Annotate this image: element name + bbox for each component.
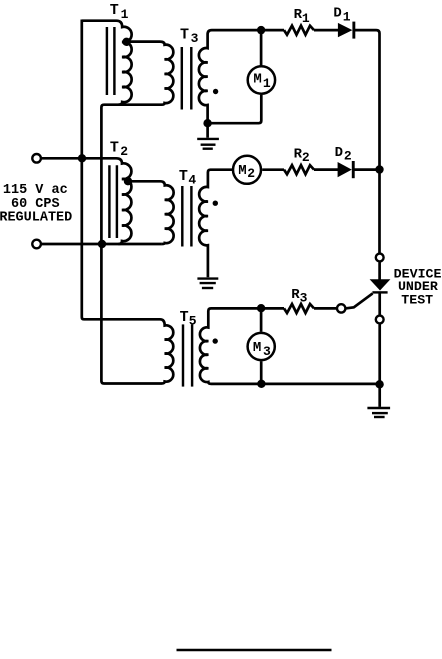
svg-text:2: 2 [302, 150, 310, 165]
svg-text:1: 1 [343, 10, 351, 25]
svg-text:5: 5 [189, 313, 197, 328]
svg-text:3: 3 [300, 291, 308, 306]
svg-text:3: 3 [263, 344, 271, 359]
svg-text:T: T [179, 168, 188, 185]
svg-text:2: 2 [344, 149, 352, 164]
svg-text:1: 1 [263, 76, 271, 91]
svg-text:T: T [180, 27, 189, 44]
svg-text:M: M [253, 72, 261, 88]
svg-text:T: T [110, 2, 119, 19]
svg-text:1: 1 [121, 7, 129, 22]
svg-text:2: 2 [120, 144, 128, 159]
svg-text:1: 1 [302, 11, 310, 26]
svg-text:T: T [110, 139, 119, 156]
svg-text:4: 4 [188, 172, 196, 187]
svg-text:M: M [253, 340, 261, 356]
svg-text:REGULATED: REGULATED [0, 210, 72, 225]
svg-text:3: 3 [191, 31, 199, 46]
svg-text:D: D [335, 145, 343, 161]
svg-text:TEST: TEST [401, 292, 433, 307]
svg-text:M: M [238, 163, 246, 179]
svg-text:2: 2 [247, 166, 255, 181]
svg-text:T: T [180, 309, 189, 326]
svg-text:D: D [333, 6, 341, 22]
